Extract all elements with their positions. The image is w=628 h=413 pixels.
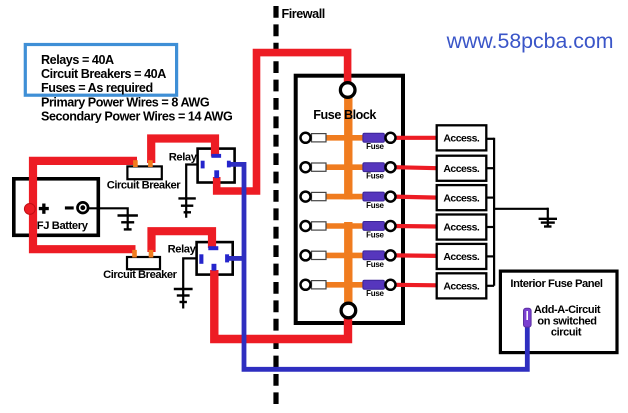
fuse row 5 right ring terminal (386, 250, 396, 260)
fuse row 3 left ring terminal (301, 192, 311, 202)
battery ground symbol (118, 216, 138, 230)
relay R1 ground symbol (178, 198, 195, 212)
wire: fuse row 6 bus tap (orange) (312, 282, 364, 288)
svg-text:Access.: Access. (443, 281, 479, 293)
relay R2 ground symbol (174, 289, 193, 302)
fuse row 4 right ring terminal (386, 221, 396, 231)
firewall dashed line (273, 6, 278, 404)
wire: fuse F6 to accessory 6 (394, 283, 438, 288)
fuse row 5 output spade terminal (312, 251, 327, 259)
relay K1 bottom pin (power out) (214, 170, 219, 178)
wire: fuse F2 to accessory 2 (394, 167, 438, 168)
relay K1 right pin (coil trigger) (227, 161, 231, 168)
svg-text:www.58pcba.com: www.58pcba.com (446, 29, 614, 53)
wire: relay K1 coil to switched circuit (blue) (231, 164, 528, 369)
fuse row 6 left ring terminal (301, 280, 311, 290)
fuse block top lug (340, 83, 355, 98)
svg-text:FJ Battery: FJ Battery (37, 220, 89, 232)
wire: fuse row 3 bus tap (orange) (312, 194, 364, 200)
wire: fuse F3 to accessory 3 (394, 197, 438, 198)
wire: accessory 6 ground stub (486, 285, 494, 287)
svg-text:Fuses = As required: Fuses = As required (41, 81, 153, 95)
circuit breaker CB2 box (127, 257, 160, 269)
accessory box 1 (437, 125, 487, 150)
wire: accessory 2 ground stub (486, 167, 494, 169)
wire: accessory 4 ground stub (486, 226, 494, 228)
wire: CB1 output to relay K1 (151, 139, 215, 164)
battery minus sign (65, 206, 74, 209)
fuse block bottom lug (341, 303, 356, 318)
fuse F3 (363, 192, 385, 201)
svg-text:Fuse: Fuse (366, 230, 384, 239)
relay K2 box (197, 242, 233, 275)
fuse block upper orange bus (344, 93, 352, 200)
fuse row 4 output spade terminal (312, 222, 327, 230)
accessory box 2 (437, 156, 487, 181)
relay R1 ground wire (186, 165, 197, 218)
fuse row 5 left ring terminal (301, 250, 311, 260)
battery negative terminal (78, 202, 89, 213)
fuse row 1 left ring terminal (301, 133, 311, 143)
wire: fuse row 2 bus tap (orange) (312, 164, 364, 170)
wire: accessory 3 ground stub (486, 197, 494, 199)
fuse row 6 right ring terminal (386, 280, 396, 290)
fuse F2 (363, 163, 385, 172)
battery ground wire (89, 208, 128, 230)
svg-text:Access.: Access. (443, 222, 479, 234)
wire: fuse F5 to accessory 5 (394, 253, 438, 258)
fuse row 2 output spade terminal (312, 163, 327, 171)
relay K1 left pin (coil ground) (201, 161, 205, 169)
Add-A-Circuit label (534, 304, 601, 338)
circuit breaker CB1 input terminal (133, 160, 138, 167)
circuit breaker CB1 box (127, 166, 161, 179)
legend box (25, 45, 176, 96)
svg-text:Fuse: Fuse (366, 172, 384, 181)
svg-text:Fuse: Fuse (366, 201, 384, 210)
accessory box 6 (437, 273, 487, 298)
fuse row 1 output spade terminal (312, 134, 327, 142)
circuit breaker CB1 output terminal (148, 160, 153, 167)
fuse F4 (363, 222, 385, 231)
svg-text:Circuit Breaker: Circuit Breaker (103, 269, 178, 281)
fuse F1 (363, 133, 385, 142)
svg-text:Fuse: Fuse (366, 289, 384, 298)
svg-text:Primary Power Wires = 8 AWG: Primary Power Wires = 8 AWG (41, 95, 210, 109)
wire: relay K2 output to fuse block bottom lug (214, 270, 348, 339)
relay K2 bottom pin (power out) (212, 264, 217, 271)
fuse row 2 left ring terminal (301, 162, 311, 172)
wire: accessory 1 ground stub (486, 138, 494, 140)
svg-text:Access.: Access. (443, 251, 479, 263)
relay R2 ground wire (183, 258, 196, 308)
fuse row 4 left ring terminal (301, 221, 311, 231)
legend text (41, 53, 233, 123)
battery plus sign (39, 204, 49, 214)
relay K2 right pin (coil trigger) (225, 254, 229, 262)
circuit breaker CB2 input terminal (132, 250, 137, 258)
relay K1 box (198, 149, 235, 183)
svg-text:Firewall: Firewall (282, 7, 325, 21)
svg-text:Secondary Power Wires = 14 AWG: Secondary Power Wires = 14 AWG (41, 109, 233, 123)
relay K2 top pin (power in) (208, 246, 218, 250)
wire: fuse F1 to accessory 1 (394, 136, 438, 140)
accessory box 5 (437, 244, 487, 269)
svg-text:Access.: Access. (443, 133, 479, 145)
wire: accessory 5 ground stub (486, 255, 494, 257)
svg-text:Circuit Breaker: Circuit Breaker (107, 180, 182, 192)
svg-text:Relay: Relay (169, 151, 198, 163)
accessory ground bus vertical wire (493, 138, 495, 286)
wire: fuse F4 to accessory 4 (394, 224, 438, 229)
circuit breaker CB2 output terminal (149, 250, 154, 258)
fuse block lower orange bus (344, 222, 352, 307)
wire: battery positive feed (up to CB1, down to CB2) (33, 161, 137, 249)
fuse block box (296, 76, 403, 323)
accessory box 4 (437, 215, 487, 240)
relay K1 top pin (power in) (211, 154, 221, 158)
fuse row 3 output spade terminal (312, 192, 327, 200)
svg-text:Access.: Access. (443, 163, 479, 175)
fuse F5 (363, 251, 385, 260)
fuse F6 (363, 280, 385, 289)
wire: CB2 output to relay K2 (152, 231, 213, 252)
svg-text:circuit: circuit (551, 326, 582, 338)
accessory ground horizontal wire (494, 208, 548, 210)
svg-text:Interior Fuse Panel: Interior Fuse Panel (510, 278, 603, 290)
fuse row 3 right ring terminal (386, 192, 396, 202)
interior fuse panel box (500, 271, 617, 353)
wire: fuse row 5 bus tap (orange) (312, 253, 364, 259)
add-a-circuit fuse tap (524, 308, 532, 327)
wire: relay K2 coil stub (blue) (229, 256, 244, 261)
svg-text:Fuse Block: Fuse Block (313, 108, 377, 122)
wire: relay K1 output to fuse block top lug (217, 53, 348, 191)
svg-text:Relay: Relay (168, 243, 197, 255)
battery box (14, 179, 99, 236)
svg-text:Access.: Access. (443, 192, 479, 204)
wire: fuse row 1 bus tap (orange) (312, 135, 364, 141)
svg-text:Fuse: Fuse (366, 142, 384, 151)
svg-text:Circuit Breakers = 40A: Circuit Breakers = 40A (41, 67, 166, 81)
relay K2 left pin (coil ground) (199, 254, 203, 263)
svg-text:Relays = 40A: Relays = 40A (41, 53, 114, 67)
fuse row 2 right ring terminal (386, 162, 396, 172)
svg-text:Add-A-Circuit: Add-A-Circuit (534, 304, 601, 316)
fuse row 6 output spade terminal (312, 281, 327, 289)
battery positive terminal (24, 204, 35, 215)
wire: fuse row 4 bus tap (orange) (312, 223, 364, 229)
svg-text:Fuse: Fuse (366, 260, 384, 269)
accessory ground symbol (539, 208, 557, 227)
accessory box 3 (437, 185, 487, 210)
fuse row 1 right ring terminal (386, 133, 396, 143)
